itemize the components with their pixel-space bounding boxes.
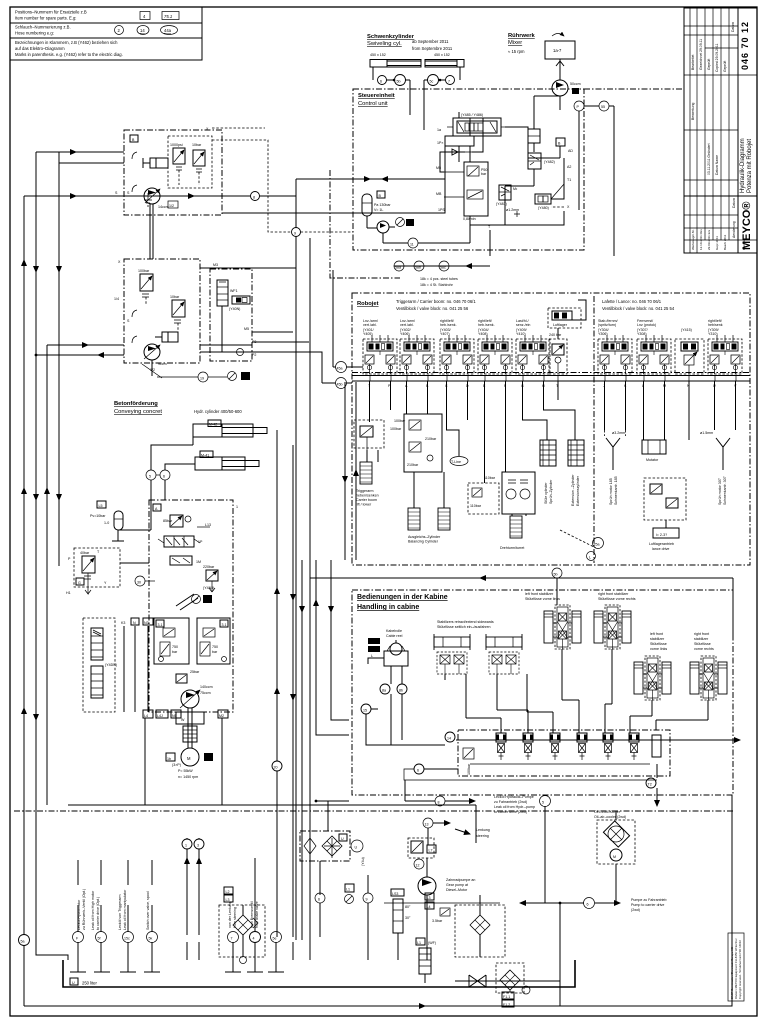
svg-text:Leak oil from manipulator: Leak oil from manipulator [123,889,127,930]
svg-text:58a: 58a [395,266,401,270]
leak filter upper [91,628,103,660]
pump control module left [154,618,189,664]
svg-text:Triggerarm: Triggerarm [356,489,373,493]
svg-text:Schwenkzylinder: Schwenkzylinder [367,34,415,40]
orifice 1.2mm [506,208,520,217]
svg-text:Werkzeugm.Nr.: Werkzeugm.Nr. [691,229,695,250]
svg-text:85bar: 85bar [163,519,173,523]
svg-text:vert./abl.: vert./abl. [400,323,414,327]
cylinder swivel 1 [370,60,421,68]
turret module A [468,476,499,514]
svg-text:Y405): Y405) [363,332,373,336]
svg-text:5b: 5b [397,80,401,84]
cartridge valve 4 [577,733,587,760]
svg-text:L3: L3 [226,898,230,902]
bank drop wires left [367,381,575,516]
svg-text:M•: M• [513,187,518,191]
horizontal trunk y213 [222,146,445,213]
svg-text:5b: 5b [554,573,558,577]
svg-text:Lnz (protok): Lnz (protok) [637,323,656,327]
svg-text:zu Fahrantrieb (2wd): zu Fahrantrieb (2wd) [494,800,527,804]
svg-text:from Septembre 2011: from Septembre 2011 [412,46,453,51]
svg-text:T-Line: T-Line [451,460,461,464]
svg-text:steering: steering [476,834,489,838]
svg-text:M3: M3 [213,263,218,267]
svg-text:58c: 58c [440,266,446,270]
svg-text:Lecköl Hydraulik–Pumpe: Lecköl Hydraulik–Pumpe [494,795,534,799]
svg-text:V≈ 1L: V≈ 1L [374,208,383,212]
svg-text:Stützfüsse seitlich ein–/ausfa: Stützfüsse seitlich ein–/ausfahren [437,625,491,629]
svg-text:G: G [78,581,81,585]
svg-text:Swiveling cyl.: Swiveling cyl. [367,41,402,47]
manifold hose circles [361,684,455,774]
svg-text:MB: MB [436,192,442,196]
leak oil pump note [405,780,535,814]
svg-text:≈ 15 rpm: ≈ 15 rpm [508,49,525,54]
valve group L4 [708,335,742,374]
svg-text:5e: 5e [273,937,277,941]
svg-text:A3: A3 [573,90,577,94]
svg-text:Luftlager: Luftlager [553,323,568,327]
cylinder swivel 2 [425,60,464,68]
return filter with bypass left [219,887,265,964]
svg-text:45a: 45a [337,367,343,371]
svg-text:1a-7: 1a-7 [553,48,562,53]
svg-text:T1: T1 [567,178,571,182]
svg-text:53: 53 [407,222,411,226]
svg-text:F1.1: F1.1 [503,995,510,999]
mixer feed lines [528,96,560,152]
svg-text:Hose numbering e.g:: Hose numbering e.g: [15,31,54,36]
svg-text:450 x 152: 450 x 152 [370,53,386,57]
svg-text:Copied 29.09.2011: Copied 29.09.2011 [715,43,719,72]
svg-text:stabilizer: stabilizer [650,637,665,641]
secondary valve conveying [170,556,201,565]
svg-text:Steuereinheit: Steuereinheit [358,93,395,99]
svg-text:(spritz/turn): (spritz/turn) [598,323,616,327]
leak filter lower [91,663,117,698]
svg-text:1P×: 1P× [437,141,444,145]
svg-text:6: 6 [587,903,589,907]
bottom long return line [24,795,732,1006]
bank manifold rails [352,373,750,389]
svg-text:75ccm: 75ccm [200,691,211,695]
svg-text:Bearb 2011: Bearb 2011 [723,234,727,250]
svg-text:M6: M6 [242,376,247,380]
thermometer block [391,889,411,960]
svg-text:5a: 5a [21,940,25,944]
valve group D5 [516,335,550,374]
svg-text:senz./ein: senz./ein [516,323,530,327]
svg-text:Y310): Y310) [708,332,718,336]
electric motor M [166,748,213,779]
svg-text:(2wd): (2wd) [631,908,640,912]
svg-text:9ccm: 9ccm [158,362,167,366]
svg-text:1a: 1a [437,128,441,132]
upper pump unit enclosure [124,130,222,215]
svg-text:7: 7 [448,80,450,84]
svg-text:50ccm: 50ccm [570,82,581,86]
svg-text:Carrier boom: Carrier boom [356,498,377,502]
svg-text:8b: 8b [399,689,403,693]
svg-text:19: 19 [200,377,204,381]
svg-text:Hydraulik-Diagramm: Hydraulik-Diagramm [740,138,746,193]
concrete pump control block enclosure [149,500,238,712]
bus labels K3 N N3 [121,618,153,712]
svg-text:Potenza mit Robojet: Potenza mit Robojet [747,139,753,193]
svg-text:Pumpe zu Fahrantrieb: Pumpe zu Fahrantrieb [631,898,667,902]
svg-text:Triggerarm / Carrier boom: no: Triggerarm / Carrier boom: no. 046 70 06… [396,299,476,304]
balancing cylinders [408,508,450,544]
circle 25a marker [560,530,604,561]
svg-text:1-0: 1-0 [104,521,109,525]
pressure reducing module [436,162,488,225]
control unit dashed enclosure [353,89,684,250]
svg-text:bar: bar [212,650,218,654]
hose circle 11 [383,225,470,248]
svg-text:Ausgleichs–Zylinder: Ausgleichs–Zylinder [408,535,441,539]
svg-text:8: 8 [438,801,440,805]
mixer gearbox 1a-7 [545,34,575,81]
T-line oval [450,457,468,466]
svg-text:3.1: 3.1 [158,623,163,627]
svg-text:L2: L2 [226,890,230,894]
svg-text:W: W [181,718,185,722]
manifold T2 outlet [646,764,657,806]
svg-text:heb./senk.: heb./senk. [440,323,457,327]
svg-text:Sprüh motor 185: Sprüh motor 185 [609,478,613,505]
svg-text:Rührwerk: Rührwerk [508,33,536,39]
svg-text:L5N: L5N [369,648,376,652]
svg-text:U: U [72,981,75,985]
svg-text:8a: 8a [382,689,386,693]
control unit internal wires [440,112,564,256]
pressure lines slash symbol [176,594,212,610]
svg-text:210bar: 210bar [425,437,437,441]
svg-text:L: L [371,654,373,658]
suction line and big loop [68,718,476,935]
svg-text:Geprüft: Geprüft [707,59,711,70]
svg-text:40bar: 40bar [80,551,90,555]
svg-text:Schwenkantr. 185: Schwenkantr. 185 [614,476,618,505]
turret module B [502,472,535,514]
svg-text:heb./senk.: heb./senk. [478,323,495,327]
notes box top-left [10,7,202,60]
svg-text:100bar: 100bar [467,763,471,775]
svg-text:Mixer: Mixer [508,40,522,46]
svg-text:A2: A2 [205,757,209,761]
svg-text:110bar: 110bar [484,476,496,480]
robojet header texts [396,296,675,563]
sideward stabilizer assembly left [434,634,470,674]
trunk y355 [36,345,124,355]
trigger arm cylinder [356,462,379,507]
LS filter block [300,800,365,866]
svg-text:ø3.2mm: ø3.2mm [612,431,625,435]
full width datum dash line [14,810,733,812]
cabin wiring [366,649,708,780]
svg-text:5: 5 [149,475,151,479]
svg-text:1M: 1M [196,560,201,564]
date note [412,39,453,51]
svg-text:Schwenkantr. 307: Schwenkantr. 307 [723,476,727,505]
svg-text:100bar: 100bar [138,269,150,273]
main variable pump [180,690,200,708]
svg-text:6: 6 [380,80,382,84]
svg-text:25bar: 25bar [190,670,200,674]
svg-text:L7: L7 [429,849,433,853]
directional valve conveying [158,536,203,547]
right rear stabilizer [690,632,727,700]
svg-text:58b: 58b [415,266,421,270]
svg-text:LS3: LS3 [392,892,398,896]
horizontal trunk y179 [292,160,446,940]
trigger arm module dashed [354,420,402,455]
section: swivel cylinders [367,34,450,57]
svg-text:M2: M2 [219,714,224,718]
mixer hydraulic motor 50ccm [552,80,581,96]
svg-text:(Y485 / Y486): (Y485 / Y486) [461,113,483,117]
svg-text:K3: K3 [121,621,125,625]
svg-text:Robojet: Robojet [357,301,379,307]
horizontal trunk y196 [24,191,296,208]
svg-text:6: 6 [318,898,320,902]
svg-text:zu Rührwerk–Ventil (Opt.): zu Rührwerk–Ventil (Opt.) [82,889,86,930]
svg-text:1PS: 1PS [438,208,445,212]
sideward stabilizer labels [437,620,494,629]
svg-text:Ventilblock / valve block: no: Ventilblock / valve block: no. 041 25 54 [602,306,675,311]
suction filter diamond [496,963,530,1007]
relief 220bar (Y4N5) [203,565,218,592]
svg-text:Lenkung: Lenkung [476,828,490,832]
svg-text:Y410): Y410) [516,332,526,336]
svg-text:750: 750 [172,645,178,649]
svg-text:vorne rechts: vorne rechts [694,647,714,651]
check valve on pilot line [440,149,472,155]
svg-text:18k = 4 St. Stahlrohr: 18k = 4 St. Stahlrohr [420,283,454,287]
svg-text:046 70 12: 046 70 12 [740,21,750,70]
valve group D3 [440,335,474,374]
svg-text:AD: AD [568,149,573,153]
svg-text:30°: 30° [405,916,411,920]
svg-text:9: 9 [366,898,368,902]
sideward stabilizer assembly right [486,634,522,674]
svg-text:L4J: L4J [157,714,163,718]
svg-text:15: 15 [363,709,367,713]
boost cylinder symbol [143,158,168,168]
svg-text:1P: 1P [198,540,203,544]
left trunk vertical lines [24,152,59,935]
svg-text:Positions–Nummern für Ersatzte: Positions–Nummern für Ersatzteile z.B [15,10,87,15]
svg-text:80°: 80° [405,905,411,909]
svg-text:i= 2-3?: i= 2-3? [656,533,667,537]
svg-text:(3×P): (3×P) [172,763,181,767]
svg-text:Pa 130bar: Pa 130bar [374,203,391,207]
svg-text:140ccm: 140ccm [200,685,213,689]
svg-text:Kabelrolle: Kabelrolle [386,629,402,633]
svg-text:bar: bar [481,172,487,176]
svg-text:Sprüh–Zylinder: Sprüh–Zylinder [549,479,553,504]
svg-text:right front: right front [694,632,709,636]
relief valve 100bar lower [138,269,153,305]
svg-text:1000psi: 1000psi [170,143,183,147]
rotator motor [642,381,689,462]
leak oil filter stack enclosure [83,618,115,712]
gauge by pilot pump [396,218,415,227]
svg-text:L4: L4 [144,714,148,718]
svg-text:5f: 5f [98,937,101,941]
svg-text:U: U [341,837,344,841]
svg-text:Betonförderung: Betonförderung [114,401,158,407]
manifold tall port [652,735,661,757]
pilot dash boundary [330,170,400,278]
svg-text:Ventilblock / valve block: no: Ventilblock / valve block: no. 041 25 56 [396,306,469,311]
svg-text:1: 1 [236,505,238,509]
trunk from control unit bottom with hose circles 58 [310,238,490,940]
svg-text:Gezeichnet 29.09.11: Gezeichnet 29.09.11 [699,39,703,70]
svg-text:Y308): Y308) [637,332,647,336]
svg-text:03.11.2011 Geändert: 03.11.2011 Geändert [707,143,711,175]
svg-text:75.1: 75.1 [164,14,172,19]
svg-text:1b: 1b [167,757,171,761]
hose circle 19 and gauge M6 [152,360,250,382]
svg-text:L5A: L5A [369,640,376,644]
svg-text:Bemerkung: Bemerkung [691,103,695,120]
svg-text:14ccm: 14ccm [158,205,169,209]
svg-text:210bar: 210bar [407,463,419,467]
svg-text:Leak oil from Hydr.–pump: Leak oil from Hydr.–pump [494,805,535,809]
svg-text:250 liter: 250 liter [82,981,98,986]
pilot sub-block [437,118,474,162]
check valve (Y40N) [229,296,250,311]
svg-text:8: 8 [253,196,255,200]
svg-text:15c: 15c [124,937,130,941]
right nozzle [700,381,736,505]
coupling box [176,712,204,724]
svg-text:L1: L1 [346,888,350,892]
extension accumulator stack B [568,440,584,506]
solenoid valve (Y481) [496,185,518,206]
solenoid cartridge (Y480) [535,178,571,210]
manifold cartridge valves [496,733,639,760]
svg-text:Schlauch–Nummerierung z.B.: Schlauch–Nummerierung z.B. [15,25,71,30]
svg-text:Stabilizers retract/extend sid: Stabilizers retract/extend sidewards [437,620,494,624]
steering module [408,838,436,869]
main pump labels [200,685,213,695]
svg-text:lift / lower: lift / lower [356,503,372,507]
svg-text:M: M [187,756,191,761]
svg-text:Bedienungen in der Kabine: Bedienungen in der Kabine [357,594,448,601]
svg-text:Gepr 2011: Gepr 2011 [715,236,719,250]
svg-text:13: 13 [425,823,429,827]
svg-text:Gear pump at: Gear pump at [446,883,468,887]
svg-text:Stützfüsse: Stützfüsse [650,642,667,646]
svg-text:Stützfüsse vorne links: Stützfüsse vorne links [525,597,560,601]
gearbox stack [183,726,197,742]
rotated pipe labels bottom-left [77,889,259,930]
svg-text:100bar: 100bar [394,419,406,423]
svg-text:6: 6 [163,475,165,479]
svg-text:0,8l/min: 0,8l/min [463,217,476,221]
valve group D4 [478,335,512,374]
svg-text:Extensionszylinder: Extensionszylinder [576,475,580,506]
concrete cylinder M-41 [195,451,259,470]
hose circles 5 6 [146,430,195,500]
lower boost cylinder [155,332,178,342]
Robojet enclosure [352,293,750,565]
svg-text:(WF): (WF) [428,941,436,945]
svg-text:18k = 4 pcs. steel tubes: 18k = 4 pcs. steel tubes [420,277,458,281]
mixer label [508,33,536,54]
svg-text:P2: P2 [252,353,256,357]
svg-text:10bar: 10bar [192,143,202,147]
svg-text:Y408): Y408) [478,332,488,336]
svg-text:lance drive: lance drive [652,547,669,551]
svg-text:Balancing Cylinder: Balancing Cylinder [408,540,439,544]
svg-text:12.10.2011 Rev: 12.10.2011 Rev [699,229,703,250]
gear pump [418,858,475,960]
svg-text:Sfüle cylinder: Sfüle cylinder [544,482,548,504]
relief valve 10bar upper [192,143,205,185]
svg-text:450 x 152: 450 x 152 [434,53,450,57]
svg-text:left front: left front [650,632,663,636]
svg-text:1/2: 1/2 [169,204,174,208]
feed circles 45a 45b [200,270,363,389]
svg-text:Control unit: Control unit [358,101,388,107]
return filter WF1 [217,280,238,306]
svg-text:Datum Name: Datum Name [715,155,719,175]
pilot box above bank [548,300,586,330]
svg-text:110bar: 110bar [470,504,482,508]
pump drive shaft down [150,204,153,259]
steering tap [423,818,490,845]
mixer return circles P 55 [574,101,614,256]
svg-text:1/4: 1/4 [114,297,119,301]
pilot pump [377,221,395,233]
left rear stabilizer [634,632,671,700]
svg-text:N5: N5 [172,714,177,718]
svg-text:Oil–air–cooler (2wd): Oil–air–cooler (2wd) [594,815,626,819]
trunk y152 [36,152,124,163]
upper pump inner pilot box [168,136,212,188]
svg-text:ab September 2011: ab September 2011 [412,39,449,44]
svg-text:Oel–Luft–Kühler: Oel–Luft–Kühler [594,810,621,814]
svg-text:25a: 25a [594,543,600,547]
oil cooler [540,795,636,903]
svg-text:20: 20 [274,766,278,770]
cabin enclosure [352,590,733,795]
svg-text:(Y40N): (Y40N) [229,307,240,311]
svg-text:14: 14 [447,737,451,741]
svg-text:Diesel–Motor: Diesel–Motor [446,888,468,892]
svg-text:4: 4 [253,937,255,941]
svg-text:3.1: 3.1 [222,623,227,627]
accumulator 6.7L [90,480,151,541]
svg-text:(Y480): (Y480) [538,206,549,210]
tank symbols upper box [127,152,152,206]
svg-text:M5: M5 [244,327,249,331]
svg-text:M: M [613,855,616,859]
svg-text:bar: bar [172,650,178,654]
svg-text:11: 11 [410,243,414,247]
svg-text:240 bar: 240 bar [549,333,562,337]
svg-text:Pv=10bar: Pv=10bar [90,514,106,518]
svg-text:ø1.5mm: ø1.5mm [700,431,713,435]
turret cylinder [500,516,524,550]
svg-text:N3: N3 [144,621,149,625]
svg-text:Lecköl von Triggerarm: Lecköl von Triggerarm [118,894,122,930]
svg-text:3: 3 [197,844,199,848]
